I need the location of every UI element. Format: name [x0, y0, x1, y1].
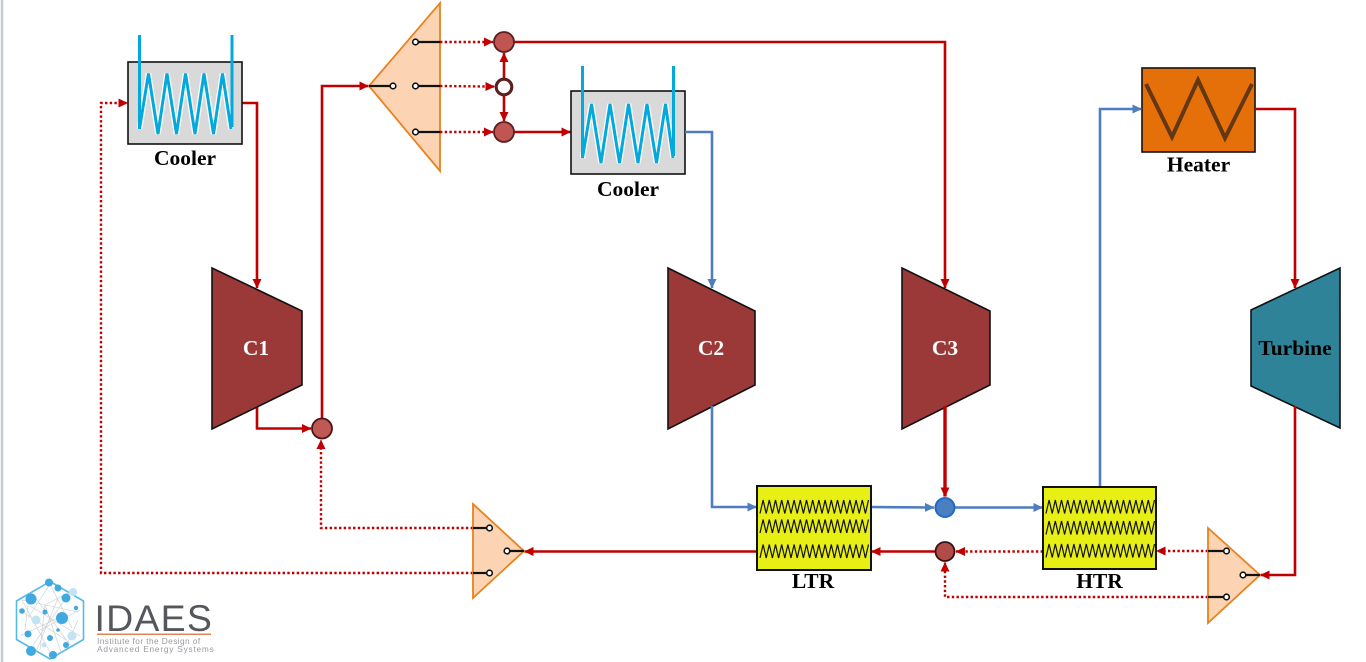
svg-text:C1: C1: [243, 336, 269, 360]
svg-text:C3: C3: [932, 336, 959, 360]
mixer BC (blue): [936, 498, 955, 517]
svg-text:LTR: LTR: [792, 569, 835, 593]
svg-text:Cooler: Cooler: [597, 177, 660, 201]
turbine: [1251, 268, 1340, 428]
wire dotted S3-bottom to M2: [945, 563, 1208, 598]
wire C3 to BC: [943, 406, 946, 497]
wire B1 to Cooler2: [514, 131, 571, 134]
heat exchanger HTR: [1043, 487, 1156, 593]
svg-text:C2: C2: [698, 336, 724, 360]
wire dotted S3-top to HTR: [1157, 550, 1209, 552]
wire W1 up to T1: [503, 53, 506, 79]
svg-text:Heater: Heater: [1167, 153, 1231, 177]
wire M2 to LTR: [872, 550, 936, 553]
wire dotted S2-bottom to Cooler1 inlet: [101, 103, 473, 573]
wire dotted S2-top to M1: [321, 440, 473, 528]
splitter S3: [1208, 528, 1260, 623]
svg-text:IDAES: IDAES: [95, 597, 214, 639]
svg-text:Turbine: Turbine: [1258, 336, 1331, 360]
svg-text:Advanced Energy Systems: Advanced Energy Systems: [97, 644, 215, 654]
mixer M1: [312, 419, 332, 439]
mixer T1: [494, 32, 514, 52]
wire Cooler1 to C1: [242, 103, 257, 288]
wire dotted S1 to B1: [440, 131, 493, 133]
compressor C1: [212, 268, 302, 429]
wire HTR to heater (blue): [1100, 109, 1142, 487]
mixer B1: [494, 122, 514, 142]
cooler Cooler1: [128, 35, 242, 170]
wire C2 to LTR (blue): [712, 406, 757, 507]
svg-text:HTR: HTR: [1076, 569, 1123, 593]
cooler Cooler2: [571, 66, 685, 201]
wire turbine to S3 apex: [1261, 406, 1296, 575]
wire C1 to mixer M1: [257, 406, 311, 429]
splitter node W1: [496, 79, 512, 95]
splitter S2: [473, 504, 524, 598]
wire dotted HTR to M2: [956, 550, 1043, 552]
wire dotted S1 to T1: [440, 41, 493, 43]
wire M1 to splitter S1 apex: [322, 86, 369, 419]
wire LTR to S2 apex: [525, 550, 758, 553]
splitter S1: [369, 3, 440, 171]
wire LTR to blue mixer BC: [871, 506, 934, 509]
compressor C3: [902, 268, 990, 429]
IDAES logo: [17, 579, 215, 660]
wire T1 to C3: [514, 42, 946, 288]
heat exchanger LTR: [757, 486, 871, 593]
left page border: [1, 0, 4, 662]
wire dotted S1 to W1: [440, 85, 495, 88]
heater: [1142, 68, 1255, 177]
mixer M2: [936, 542, 955, 561]
compressor C2: [668, 268, 755, 429]
wire W1 down to B1: [503, 95, 506, 121]
wire Cooler2 to C2 (blue): [685, 132, 712, 288]
svg-text:Cooler: Cooler: [154, 146, 217, 170]
wire heater to turbine: [1255, 109, 1295, 288]
wire BC to HTR (blue): [955, 506, 1043, 509]
